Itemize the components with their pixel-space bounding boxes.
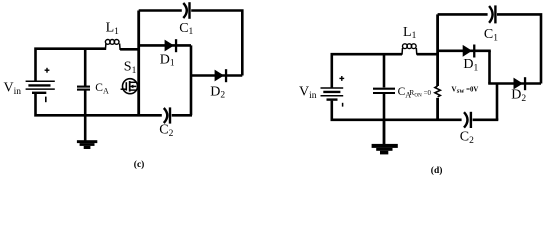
diode D2 (c) bbox=[215, 69, 228, 82]
node vertical lower (d) bbox=[436, 98, 439, 120]
wire D2 (c) bbox=[191, 74, 242, 77]
plus sign (d) bbox=[339, 76, 344, 81]
inductor L1 (d) bbox=[402, 44, 417, 55]
battery Vin (c) bbox=[26, 81, 55, 93]
wire D1 (d) bbox=[438, 49, 491, 52]
wire battery-top to L1 (c) bbox=[36, 49, 106, 81]
wire L1 to node (d) bbox=[417, 53, 439, 56]
wire C2-right (d) bbox=[473, 119, 499, 122]
ground (d) bbox=[372, 120, 398, 155]
wire battery-bottom (c) bbox=[36, 94, 162, 116]
diode D2 (d) bbox=[514, 77, 527, 90]
capacitor C1 (c) bbox=[183, 2, 189, 19]
top wire with C1 (c) bbox=[139, 9, 182, 12]
node vertical wire (c) bbox=[137, 11, 140, 116]
capacitor C2 (d) bbox=[464, 112, 471, 128]
mosfet S1 (c) bbox=[121, 79, 138, 94]
wire D2 (d) bbox=[488, 82, 541, 85]
ground (c) bbox=[77, 115, 97, 149]
top wire right + right vertical (d) bbox=[497, 14, 541, 83]
diode D1 (d) bbox=[463, 45, 476, 58]
capacitor CA (d) bbox=[373, 54, 395, 120]
wire L1 to node (c) bbox=[120, 48, 140, 51]
top wire with C1 (d) bbox=[438, 13, 488, 16]
svg-text:(d): (d) bbox=[431, 165, 443, 176]
battery Vin (d) bbox=[321, 88, 344, 100]
plus sign (c) bbox=[45, 68, 50, 73]
junction vertical wire (c) bbox=[190, 45, 193, 115]
node vertical upper (d) bbox=[436, 14, 439, 86]
wire C2-right (c) bbox=[172, 114, 192, 117]
capacitor C2 (c) bbox=[164, 107, 170, 123]
capacitor C1 (d) bbox=[489, 5, 495, 23]
wire D1 (c) bbox=[139, 44, 191, 47]
minus tick (c) bbox=[45, 97, 47, 103]
top wire right + right vertical (c) bbox=[191, 11, 242, 76]
resistor Ron (d) bbox=[435, 86, 440, 97]
svg-text:(c): (c) bbox=[134, 159, 145, 170]
minus tick (d) bbox=[342, 103, 344, 107]
inductor L1 (c) bbox=[105, 40, 120, 51]
wire battery-bottom (d) bbox=[332, 101, 462, 120]
junction vertical lower (d) bbox=[496, 84, 499, 120]
capacitor CA (c) bbox=[77, 49, 90, 116]
wire battery-top to L1 (d) bbox=[332, 54, 402, 87]
junction vertical upper (d) bbox=[488, 51, 491, 84]
diode D1 (c) bbox=[165, 39, 178, 52]
